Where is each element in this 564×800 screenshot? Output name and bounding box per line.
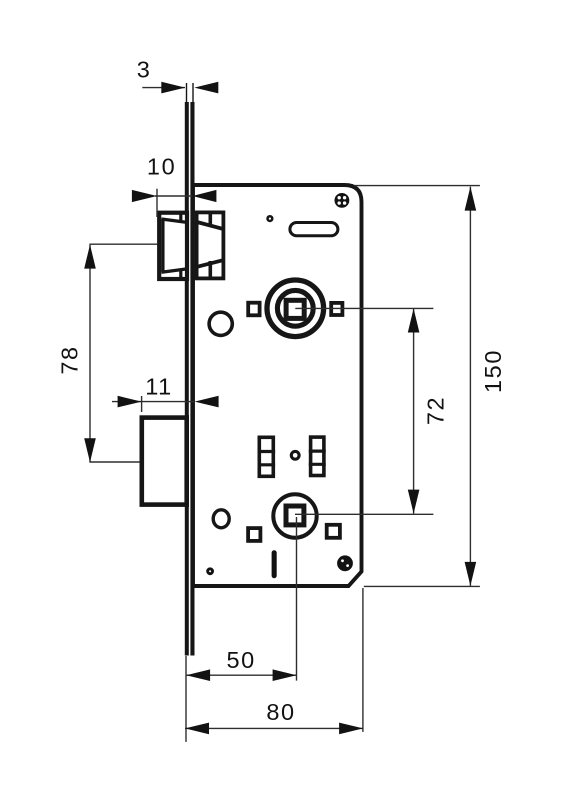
- svg-text:10: 10: [147, 154, 176, 180]
- svg-text:80: 80: [266, 699, 295, 725]
- svg-text:3: 3: [137, 57, 152, 83]
- svg-text:11: 11: [145, 374, 173, 400]
- svg-text:78: 78: [57, 345, 83, 374]
- svg-text:150: 150: [480, 349, 506, 393]
- svg-text:72: 72: [422, 396, 448, 425]
- svg-text:50: 50: [227, 647, 256, 673]
